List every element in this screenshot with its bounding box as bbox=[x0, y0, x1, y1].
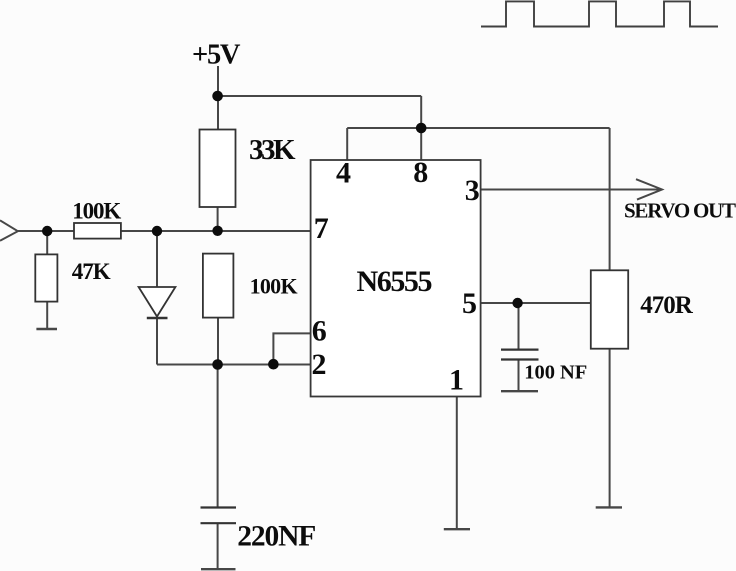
svg-text:220NF: 220NF bbox=[237, 521, 316, 553]
ground 220NF bbox=[201, 568, 236, 570]
waveform square wave bbox=[481, 1, 718, 26]
wire +5V rail bbox=[218, 95, 421, 97]
wire pin 6 bbox=[273, 333, 310, 364]
ground 47K bbox=[36, 328, 57, 331]
svg-text:470R: 470R bbox=[640, 292, 693, 319]
wire diode to lower rail bbox=[156, 318, 158, 365]
junction node A bbox=[152, 226, 162, 236]
wire 470R top feed bbox=[609, 128, 611, 270]
junction +5V rail bbox=[212, 91, 223, 102]
junction node D pin6 bbox=[268, 359, 279, 370]
resistor 47K bbox=[35, 254, 57, 301]
resistor 100K timing bbox=[203, 254, 234, 318]
wire 33K bottom bbox=[217, 207, 219, 231]
wire pin 5 bbox=[481, 302, 591, 304]
junction pin 8 rail bbox=[416, 123, 427, 134]
svg-text:100K: 100K bbox=[72, 198, 121, 223]
junction node C bbox=[212, 359, 223, 370]
capacitor 100NF plates bbox=[501, 350, 539, 360]
wire 220NF to ground bbox=[217, 523, 219, 569]
wire lower rail to pin 2 bbox=[157, 364, 311, 366]
wire input node to 47K bbox=[46, 231, 48, 254]
svg-text:33K: 33K bbox=[249, 134, 296, 166]
svg-text:2: 2 bbox=[312, 348, 327, 381]
IC U1 N6555 body bbox=[311, 160, 481, 397]
svg-text:8: 8 bbox=[413, 156, 428, 189]
wire pin 4 drop bbox=[346, 128, 348, 160]
ground pin 1 bbox=[444, 528, 470, 530]
svg-text:7: 7 bbox=[314, 212, 329, 245]
svg-text:47K: 47K bbox=[72, 259, 111, 284]
wire input rail to pin 7 bbox=[18, 230, 311, 232]
wire 100K timing bottom bbox=[217, 318, 219, 365]
wire pin 8 drop bbox=[420, 96, 422, 160]
input arrow bbox=[0, 220, 18, 241]
resistor 470R bbox=[591, 270, 628, 348]
capacitor 220NF plates bbox=[201, 508, 237, 524]
svg-text:4: 4 bbox=[336, 157, 351, 190]
wire node C to 220NF bbox=[217, 365, 219, 508]
wire +5V stem bbox=[217, 66, 219, 130]
arrow servo out bbox=[636, 179, 662, 199]
svg-text:SERVO OUT: SERVO OUT bbox=[624, 199, 736, 223]
svg-text:1: 1 bbox=[449, 363, 464, 396]
junction pin 5 node bbox=[512, 298, 522, 308]
wire 47K to ground bbox=[46, 302, 48, 329]
wire node A to diode bbox=[156, 231, 158, 287]
junction input node bbox=[42, 226, 52, 236]
junction node B bbox=[212, 226, 222, 236]
wire pin5 node to 100NF bbox=[518, 303, 520, 350]
wire pin 1 to ground bbox=[456, 397, 458, 529]
ground 470R bbox=[596, 506, 622, 508]
wire pin 4 rail bbox=[347, 127, 609, 129]
wire pin 3 output bbox=[481, 189, 662, 191]
resistor 33K bbox=[200, 130, 236, 208]
diode D1 bbox=[139, 287, 176, 317]
wire 470R to ground bbox=[609, 349, 611, 507]
svg-text:6: 6 bbox=[312, 315, 327, 348]
ground 100NF bbox=[501, 390, 538, 392]
svg-text:+5V: +5V bbox=[192, 39, 241, 70]
svg-text:100 NF: 100 NF bbox=[524, 361, 587, 383]
svg-text:N6555: N6555 bbox=[357, 265, 433, 298]
svg-text:3: 3 bbox=[465, 174, 480, 207]
svg-text:5: 5 bbox=[462, 287, 477, 320]
resistor 100K input bbox=[74, 223, 121, 239]
wire 100NF to ground bbox=[518, 360, 520, 392]
diode D1 cathode bar bbox=[147, 317, 168, 320]
svg-text:100K: 100K bbox=[250, 273, 298, 298]
